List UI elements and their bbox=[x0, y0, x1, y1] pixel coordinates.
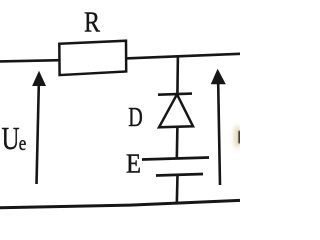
diode D cathode bar bbox=[158, 94, 192, 95]
svg-text:e: e bbox=[19, 131, 27, 155]
arrow U (output) head bbox=[211, 69, 226, 85]
wire top-left rail bbox=[0, 60, 60, 61]
svg-text:R: R bbox=[84, 7, 101, 39]
wire bottom rail bbox=[0, 200, 240, 207]
svg-text:D: D bbox=[128, 102, 143, 132]
svg-text:E: E bbox=[126, 149, 141, 179]
capacitor E bottom plate bbox=[156, 174, 203, 176]
arrow Ue shaft bbox=[37, 85, 39, 184]
wire branch from top rail to diode bbox=[176, 56, 179, 94]
wire capacitor to bottom rail bbox=[176, 175, 179, 205]
label U (output, cut off at edge) halo bbox=[233, 126, 241, 149]
label U (output, cut off at edge) stem bbox=[238, 131, 240, 144]
svg-text:U: U bbox=[2, 120, 20, 156]
capacitor E top plate bbox=[142, 158, 209, 160]
resistor R bbox=[59, 41, 126, 75]
arrow Ue head bbox=[32, 71, 46, 86]
arrow U (output) shaft bbox=[218, 84, 220, 185]
diode D triangle bbox=[159, 94, 193, 127]
wire top-right rail bbox=[126, 54, 241, 59]
wire diode to capacitor bbox=[176, 127, 179, 159]
